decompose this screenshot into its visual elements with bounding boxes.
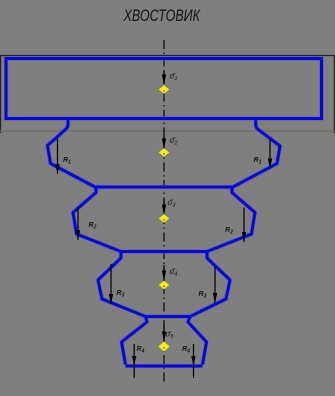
frame right line	[333, 55, 335, 133]
svg-text:ХВОСТОВИК: ХВОСТОВИК	[123, 6, 201, 25]
left profile zigzag	[48, 118, 148, 365]
side arrow lobe4 right	[213, 267, 217, 303]
frame bottom faint line	[0, 130, 335, 132]
shelf lobe4 bottom	[146, 315, 191, 318]
side arrow lobe2 left	[55, 139, 59, 174]
shelf lobe3 bottom	[121, 250, 207, 253]
right profile zigzag	[188, 118, 280, 365]
center arrow sigma2	[162, 136, 166, 149]
frame top line	[0, 55, 335, 57]
marker point 2	[159, 148, 169, 157]
side arrow lobe2 right	[268, 139, 272, 169]
side arrow lobe3 right	[242, 208, 246, 243]
lobe5 bottom edge	[126, 365, 203, 368]
marker point 3	[159, 214, 169, 223]
marker point 5	[159, 342, 170, 352]
side arrow lobe3 left	[76, 207, 80, 240]
center arrow sigma5	[162, 325, 166, 342]
blue line halo (jpeg-like fringe)	[6, 59, 322, 367]
center arrow sigma3	[162, 199, 166, 215]
center arrow sigma1	[162, 71, 166, 85]
center arrow sigma4	[162, 265, 166, 281]
centerline (dash-dot axis)	[163, 40, 165, 385]
side arrow lobe5 left	[132, 344, 136, 378]
marker point 4	[159, 281, 169, 290]
tier 1 rectangle	[6, 59, 322, 119]
marker point 1	[159, 85, 169, 94]
frame left line	[0, 55, 2, 133]
side arrow lobe4 left	[109, 264, 113, 304]
shelf lobe2 bottom	[96, 186, 232, 189]
side arrow lobe5 right	[191, 344, 195, 378]
